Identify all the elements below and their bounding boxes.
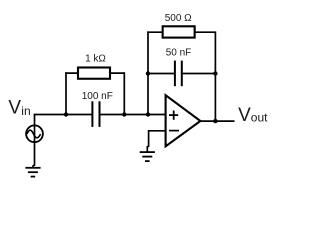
wire R1 row <box>65 72 124 74</box>
wire R1 loop left vertical <box>65 72 67 114</box>
junction dot E (C2 right) <box>213 71 217 75</box>
wire C2 row right <box>183 73 216 75</box>
junction dot F (output node) <box>213 119 217 123</box>
svg-text:500 Ω: 500 Ω <box>165 13 192 24</box>
op-amp U1 <box>166 95 201 146</box>
svg-text:V: V <box>238 105 251 126</box>
svg-text:out: out <box>251 111 268 125</box>
wire Vin drop through source <box>34 115 36 166</box>
ground (at op-amp inverting input) <box>140 152 155 161</box>
resistor R2 500 Ohm <box>163 26 195 37</box>
wire R1 loop right vertical <box>123 72 125 114</box>
junction dot C (feedback tap on main line) <box>146 112 150 116</box>
ground (under source) <box>25 165 40 177</box>
junction dot B (right of R1 loop) <box>122 112 126 116</box>
svg-text:V: V <box>8 97 21 118</box>
wire main line right of 100nF to op-amp <box>100 114 165 116</box>
wire inverting input to ground <box>147 131 165 152</box>
junction dot D (C2 left) <box>146 71 150 75</box>
wire C2 row left <box>148 73 174 75</box>
junction dot A (left of R1 loop) <box>64 112 68 116</box>
resistor R1 1 kOhm <box>78 68 110 79</box>
svg-text:100 nF: 100 nF <box>82 91 113 102</box>
svg-text:1 kΩ: 1 kΩ <box>85 53 106 64</box>
node Vout label <box>238 105 268 126</box>
wire feedback left vertical <box>147 31 149 114</box>
svg-text:50 nF: 50 nF <box>166 48 192 59</box>
wire R2 row <box>147 31 215 33</box>
wire feedback right vertical <box>214 31 216 121</box>
node Vin label <box>8 97 30 118</box>
capacitor C2 50 nF <box>175 61 182 87</box>
AC source V1 <box>26 125 43 142</box>
wire main line left of 100nF <box>34 114 92 116</box>
capacitor C1 100 nF <box>92 101 99 127</box>
svg-text:in: in <box>21 104 30 118</box>
wire output <box>200 120 235 122</box>
